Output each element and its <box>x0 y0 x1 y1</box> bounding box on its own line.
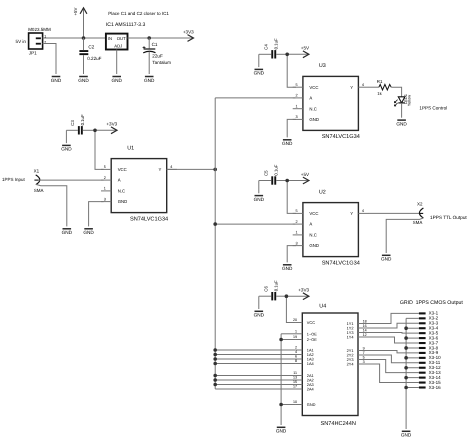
svg-text:A: A <box>309 222 312 227</box>
svg-text:+5V: +5V <box>73 7 78 15</box>
wire <box>65 130 67 143</box>
junction <box>213 383 217 387</box>
junction <box>213 362 217 366</box>
svg-text:OUT: OUT <box>117 36 126 41</box>
svg-text:4: 4 <box>362 83 364 87</box>
wire <box>286 296 295 322</box>
svg-text:X3-16: X3-16 <box>429 385 442 390</box>
pin X3-10 <box>419 355 441 360</box>
wire <box>365 351 419 353</box>
svg-text:C1: C1 <box>152 42 158 47</box>
ground <box>78 77 89 83</box>
wire <box>276 53 287 55</box>
wire <box>281 339 296 341</box>
junction <box>82 36 86 40</box>
ground <box>381 255 392 261</box>
svg-text:IC1 AMS1117-3.3: IC1 AMS1117-3.3 <box>106 22 146 28</box>
svg-text:14: 14 <box>363 329 367 333</box>
power +3V3 <box>149 29 194 41</box>
svg-text:2: 2 <box>295 94 297 98</box>
wire <box>89 202 104 227</box>
wire <box>287 119 296 137</box>
svg-text:X1: X1 <box>34 169 40 174</box>
svg-text:13: 13 <box>293 376 297 380</box>
junction <box>213 353 217 357</box>
wire <box>83 129 95 131</box>
buffer U3 <box>293 63 369 140</box>
ground <box>51 77 62 83</box>
svg-text:GND: GND <box>396 121 407 126</box>
wire <box>39 179 104 181</box>
ground <box>396 120 407 126</box>
svg-text:SN74LVC1G34: SN74LVC1G34 <box>322 260 360 266</box>
svg-text:3: 3 <box>295 115 297 119</box>
pin X3-11 <box>419 360 441 365</box>
svg-text:M023.5MM: M023.5MM <box>28 27 51 32</box>
junction <box>285 294 289 298</box>
svg-text:A: A <box>118 178 121 183</box>
wire <box>215 358 296 360</box>
junction <box>147 36 151 40</box>
wire <box>406 337 419 339</box>
pin X3-6 <box>419 335 439 340</box>
svg-text:+5V: +5V <box>301 46 310 51</box>
svg-text:2Y4: 2Y4 <box>347 362 355 367</box>
svg-text:JP1: JP1 <box>29 51 37 56</box>
svg-text:C5: C5 <box>263 170 268 176</box>
wire <box>369 86 379 88</box>
svg-text:ADJ: ADJ <box>114 44 122 49</box>
junction <box>404 346 408 350</box>
svg-text:1PPS Control: 1PPS Control <box>419 105 447 110</box>
svg-text:GND: GND <box>144 78 155 83</box>
wire <box>406 357 419 359</box>
wire <box>259 295 272 297</box>
pin X3-5 <box>419 330 439 335</box>
wire <box>401 103 403 118</box>
svg-text:1: 1 <box>104 187 106 191</box>
svg-text:3: 3 <box>363 360 365 364</box>
svg-text:+3V3: +3V3 <box>298 288 309 293</box>
pin X3-9 <box>419 350 439 355</box>
junction <box>213 374 217 378</box>
buffer U2 <box>293 189 369 266</box>
wire <box>365 337 419 343</box>
power +3V3 <box>95 122 118 134</box>
LED LED1 <box>394 93 411 106</box>
connector X1 <box>34 169 44 193</box>
connector JP1 <box>16 27 51 56</box>
junction <box>404 386 408 390</box>
wire <box>406 387 419 389</box>
svg-text:VCC: VCC <box>309 85 318 90</box>
svg-text:U4: U4 <box>319 303 326 309</box>
svg-text:VCC: VCC <box>307 320 315 325</box>
svg-text:VCC: VCC <box>118 167 127 172</box>
svg-text:SMA: SMA <box>413 220 423 225</box>
junction <box>404 356 408 360</box>
wire <box>215 349 296 351</box>
wire <box>215 363 296 365</box>
svg-text:GND: GND <box>276 429 287 434</box>
capacitor C3 <box>70 114 85 134</box>
junction <box>279 338 283 342</box>
wire <box>276 180 287 182</box>
svg-text:10: 10 <box>293 400 297 404</box>
svg-text:GND: GND <box>309 243 319 248</box>
svg-text:N.C: N.C <box>309 233 316 238</box>
svg-text:3: 3 <box>295 241 297 245</box>
wire <box>128 37 150 39</box>
capacitor C1 <box>143 42 172 65</box>
svg-text:Y: Y <box>350 211 353 216</box>
svg-text:C3: C3 <box>70 120 75 126</box>
svg-text:5: 5 <box>104 165 106 169</box>
svg-text:15: 15 <box>293 380 297 384</box>
wire <box>281 333 296 335</box>
ground <box>144 77 155 83</box>
svg-text:1k: 1k <box>377 91 382 96</box>
svg-text:SMA: SMA <box>34 188 44 193</box>
svg-text:2A4: 2A4 <box>307 387 315 392</box>
wire <box>406 377 419 379</box>
junction <box>404 376 408 380</box>
pin X3-2 <box>419 316 439 321</box>
svg-text:GND: GND <box>307 402 316 407</box>
pin X3-4 <box>419 326 439 331</box>
svg-text:20: 20 <box>293 318 297 322</box>
wire <box>365 313 419 323</box>
svg-text:19: 19 <box>293 335 297 339</box>
junction <box>404 336 408 340</box>
wire <box>365 364 419 383</box>
svg-text:Y: Y <box>350 85 353 90</box>
wire <box>167 168 216 170</box>
wire <box>43 37 106 39</box>
svg-text:GND: GND <box>61 147 72 152</box>
ground <box>276 427 287 433</box>
svg-text:5: 5 <box>363 356 365 360</box>
wire <box>406 347 419 349</box>
svg-text:4: 4 <box>170 165 172 169</box>
ground <box>254 196 265 202</box>
wire <box>116 50 118 75</box>
svg-text:1: 1 <box>295 231 297 235</box>
power +5V <box>287 172 310 184</box>
wire 1PPS bus <box>214 98 216 389</box>
wire <box>215 388 296 390</box>
svg-text:12: 12 <box>363 333 367 337</box>
svg-text:4: 4 <box>295 350 297 354</box>
junction <box>404 326 408 330</box>
svg-text:GND: GND <box>83 230 94 235</box>
wire <box>386 218 423 253</box>
svg-text:C2: C2 <box>88 45 94 50</box>
wire <box>148 52 150 74</box>
wire <box>258 296 260 309</box>
wire <box>365 323 419 328</box>
svg-text:+3V3: +3V3 <box>183 29 194 34</box>
svg-text:GND: GND <box>78 78 89 83</box>
svg-text:1PPS CMOS Output: 1PPS CMOS Output <box>416 300 464 306</box>
wire <box>287 181 296 214</box>
junction <box>213 348 217 352</box>
power +5V <box>287 46 310 58</box>
svg-text:16: 16 <box>363 324 367 328</box>
ground <box>61 145 72 151</box>
svg-text:R1: R1 <box>377 79 383 84</box>
svg-text:17: 17 <box>293 385 297 389</box>
ground <box>83 229 94 235</box>
junction <box>213 357 217 361</box>
pin X3-7 <box>419 340 439 345</box>
svg-text:Yellow: Yellow <box>407 95 412 107</box>
resistor R1 <box>377 79 391 96</box>
svg-text:SN74LVC1G34: SN74LVC1G34 <box>130 216 168 222</box>
svg-text:U3: U3 <box>319 63 326 69</box>
junction <box>279 403 283 407</box>
pin X3-13 <box>419 370 441 375</box>
svg-text:1A4: 1A4 <box>307 361 315 366</box>
wire <box>365 332 419 335</box>
svg-text:1Y4: 1Y4 <box>347 335 355 340</box>
wire <box>66 129 78 131</box>
junction <box>285 53 289 57</box>
ground <box>282 265 293 271</box>
svg-text:Y: Y <box>159 167 162 172</box>
capacitor C6 <box>263 280 278 300</box>
wire <box>259 53 272 55</box>
junction <box>213 378 217 382</box>
wire <box>365 355 419 363</box>
svg-text:C6: C6 <box>263 286 268 292</box>
wire <box>215 375 296 377</box>
wire <box>406 327 419 329</box>
svg-text:0.1uF: 0.1uF <box>274 280 279 291</box>
pin X3-8 <box>419 345 439 350</box>
svg-text:GND: GND <box>282 266 293 271</box>
svg-text:SN74HC244N: SN74HC244N <box>321 421 356 427</box>
junction <box>213 168 217 172</box>
svg-text:X2: X2 <box>417 201 423 206</box>
ground <box>282 140 293 146</box>
wire <box>148 38 150 48</box>
wire <box>215 97 295 99</box>
wire <box>281 404 296 406</box>
junction <box>285 179 289 183</box>
svg-text:3: 3 <box>104 197 106 201</box>
wire <box>406 317 419 319</box>
svg-text:GND: GND <box>62 230 73 235</box>
svg-text:GRID: GRID <box>400 300 413 306</box>
svg-text:Tantalum: Tantalum <box>152 60 171 65</box>
ground <box>401 431 412 437</box>
pin X3-15 <box>419 380 441 385</box>
power +3V3 <box>286 288 309 300</box>
svg-text:GND: GND <box>254 71 265 76</box>
svg-text:1: 1 <box>295 329 297 333</box>
svg-text:2: 2 <box>295 346 297 350</box>
svg-text:+5V: +5V <box>301 172 310 177</box>
junction <box>213 222 217 226</box>
ground <box>62 229 73 235</box>
svg-text:1PPS Input: 1PPS Input <box>2 177 26 182</box>
svg-text:GND: GND <box>118 199 128 204</box>
pin X3-14 <box>419 375 441 380</box>
wire <box>83 55 85 74</box>
wire <box>215 379 296 381</box>
svg-text:2: 2 <box>104 176 106 180</box>
wire <box>391 87 401 96</box>
wire <box>83 38 85 50</box>
capacitor C4 <box>263 38 278 58</box>
wire <box>365 360 419 373</box>
svg-text:A: A <box>309 96 312 101</box>
wire <box>215 384 296 386</box>
svg-text:9: 9 <box>363 347 365 351</box>
svg-text:GND: GND <box>282 141 293 146</box>
svg-text:11: 11 <box>293 371 297 375</box>
wire <box>287 246 296 263</box>
svg-text:5: 5 <box>295 83 297 87</box>
svg-text:2: 2 <box>295 220 297 224</box>
pin X3-16 <box>419 385 441 390</box>
svg-text:U2: U2 <box>319 189 326 195</box>
svg-text:GND: GND <box>111 78 122 83</box>
svg-text:N.C: N.C <box>309 106 316 111</box>
svg-text:+3V3: +3V3 <box>106 122 117 127</box>
power +5V <box>73 7 87 38</box>
svg-text:2~OE: 2~OE <box>307 337 317 342</box>
wire <box>43 44 56 75</box>
svg-text:GND: GND <box>309 117 319 122</box>
capacitor C2 <box>79 45 101 61</box>
svg-text:1PPS TTL Output: 1PPS TTL Output <box>430 215 467 220</box>
junction <box>93 129 97 133</box>
svg-text:0.1uF: 0.1uF <box>80 114 85 125</box>
buffer U4 <box>293 303 367 426</box>
pin X3-3 <box>419 321 439 326</box>
svg-text:GND: GND <box>254 313 265 318</box>
svg-text:1~OE: 1~OE <box>307 331 317 336</box>
svg-text:6: 6 <box>295 355 297 359</box>
wire <box>215 223 295 225</box>
svg-text:0.1uF: 0.1uF <box>274 164 279 175</box>
svg-text:18: 18 <box>363 320 367 324</box>
pin X3-1 <box>419 311 439 316</box>
svg-text:Place C1 and C2 closer to IC1: Place C1 and C2 closer to IC1 <box>108 11 169 16</box>
svg-text:VCC: VCC <box>309 211 318 216</box>
svg-text:5: 5 <box>295 209 297 213</box>
wire <box>287 54 296 87</box>
svg-text:4: 4 <box>362 209 364 213</box>
svg-text:GND: GND <box>381 257 392 262</box>
wire <box>276 295 286 297</box>
wire <box>369 212 420 214</box>
svg-text:GND: GND <box>51 78 62 83</box>
svg-text:GND: GND <box>254 197 265 202</box>
svg-text:7: 7 <box>363 351 365 355</box>
regulator IC1 <box>106 22 146 49</box>
svg-text:U1: U1 <box>127 145 134 151</box>
wire <box>258 181 260 194</box>
wire <box>215 354 296 356</box>
svg-text:22uF: 22uF <box>152 54 163 59</box>
wire <box>259 180 272 182</box>
ground <box>111 77 122 83</box>
junction <box>404 366 408 370</box>
capacitor C5 <box>263 164 278 184</box>
svg-text:GND: GND <box>401 433 412 438</box>
svg-text:N.C: N.C <box>118 189 125 194</box>
wire <box>95 130 104 169</box>
wire GND bus <box>405 318 407 429</box>
wire <box>280 334 282 425</box>
wire <box>258 54 260 67</box>
svg-text:0.22uF: 0.22uF <box>87 56 101 61</box>
connector X2 <box>413 201 424 225</box>
svg-text:IN: IN <box>108 36 112 41</box>
wire <box>36 184 67 226</box>
svg-text:8: 8 <box>295 359 297 363</box>
svg-text:SN74LVC1G34: SN74LVC1G34 <box>322 134 360 140</box>
ground <box>254 69 265 75</box>
svg-text:C4: C4 <box>263 44 268 50</box>
svg-text:1: 1 <box>295 105 297 109</box>
svg-text:5V in: 5V in <box>16 39 27 44</box>
svg-text:0.1uF: 0.1uF <box>274 38 279 49</box>
pin X3-12 <box>419 365 441 370</box>
ground <box>254 311 265 317</box>
buffer U1 <box>101 145 177 222</box>
wire <box>406 367 419 369</box>
